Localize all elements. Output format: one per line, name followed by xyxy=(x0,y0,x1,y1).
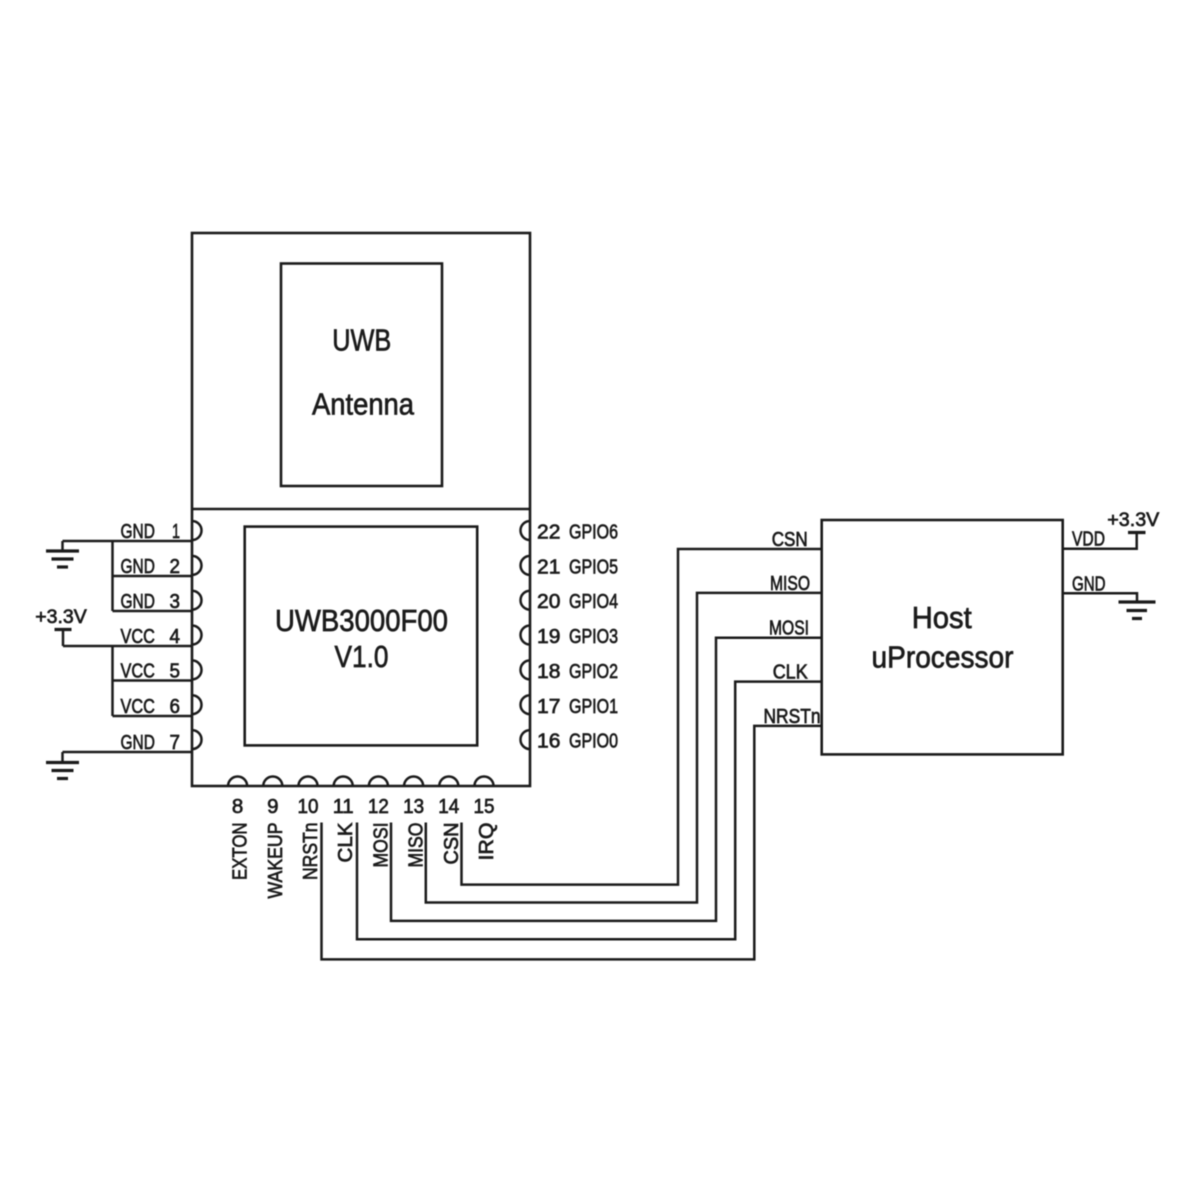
svg-text:+3.3V: +3.3V xyxy=(1107,509,1159,531)
chip body UWB3000F00 xyxy=(245,527,478,746)
wire VDD stub xyxy=(1063,533,1137,549)
pin 20 bump xyxy=(521,591,531,610)
wire net MOSI module-to-host xyxy=(391,638,822,921)
pin 21 bump xyxy=(521,556,531,575)
pin 1 bump xyxy=(192,521,202,540)
pin 3 bump xyxy=(192,591,202,610)
svg-text:CLK: CLK xyxy=(773,662,809,684)
power +3.3V symbol left xyxy=(55,628,72,631)
svg-text:13: 13 xyxy=(403,795,424,818)
svg-text:15: 15 xyxy=(474,795,495,818)
svg-text:GPIO1: GPIO1 xyxy=(569,696,618,718)
svg-text:20: 20 xyxy=(537,591,560,613)
svg-text:NRSTn: NRSTn xyxy=(300,823,322,881)
svg-text:16: 16 xyxy=(537,731,560,753)
svg-text:GND: GND xyxy=(1072,573,1106,595)
power +3.3V symbol right xyxy=(1128,531,1146,534)
svg-text:VDD: VDD xyxy=(1072,529,1105,551)
svg-text:CSN: CSN xyxy=(441,823,463,865)
svg-text:CLK: CLK xyxy=(335,822,357,863)
pin 15 bump xyxy=(475,777,494,787)
svg-text:9: 9 xyxy=(267,795,278,818)
pin 2 bump xyxy=(192,556,202,575)
wire pin3 GND stub xyxy=(113,610,193,613)
svg-text:GPIO4: GPIO4 xyxy=(569,591,618,613)
wire pin7 GND stub xyxy=(63,751,193,754)
pin 14 bump xyxy=(439,777,458,787)
svg-text:8: 8 xyxy=(232,795,243,818)
module internal divider xyxy=(192,508,530,511)
svg-text:19: 19 xyxy=(537,626,560,648)
ground symbol at pin7 xyxy=(61,752,64,763)
svg-text:GPIO2: GPIO2 xyxy=(569,661,618,683)
svg-text:WAKEUP: WAKEUP xyxy=(265,823,287,899)
svg-text:uProcessor: uProcessor xyxy=(872,640,1014,675)
svg-text:11: 11 xyxy=(333,795,354,818)
host uProcessor box U2 xyxy=(822,520,1063,754)
svg-text:22: 22 xyxy=(537,522,560,544)
svg-text:GPIO3: GPIO3 xyxy=(569,626,618,648)
wire GND stub xyxy=(1063,593,1137,602)
svg-text:MOSI: MOSI xyxy=(769,618,809,640)
svg-text:14: 14 xyxy=(438,795,459,818)
wire pin6 VCC stub xyxy=(113,715,193,718)
svg-text:CSN: CSN xyxy=(772,529,808,551)
wire net MISO module-to-host xyxy=(426,593,822,903)
wire pin5 VCC stub xyxy=(113,679,193,682)
svg-text:UWB3000F00: UWB3000F00 xyxy=(275,603,448,638)
svg-text:17: 17 xyxy=(537,696,560,718)
pin 16 bump xyxy=(521,730,531,749)
UWB module U1 outline xyxy=(192,233,530,786)
svg-text:IRQ: IRQ xyxy=(476,823,498,861)
pin 12 bump xyxy=(369,777,388,787)
pin 6 bump xyxy=(192,695,202,714)
svg-text:Antenna: Antenna xyxy=(312,387,415,422)
wire net CSN module-to-host xyxy=(462,549,823,885)
UWB antenna box xyxy=(281,264,442,487)
svg-text:MISO: MISO xyxy=(770,573,810,595)
wire pin4 VCC stub xyxy=(63,645,192,648)
pin 8 bump xyxy=(228,777,247,787)
svg-text:+3.3V: +3.3V xyxy=(35,606,87,628)
svg-text:21: 21 xyxy=(537,556,560,578)
pin 5 bump xyxy=(192,660,202,679)
svg-text:NRSTn: NRSTn xyxy=(764,706,821,728)
pin 19 bump xyxy=(521,626,531,645)
svg-text:GPIO6: GPIO6 xyxy=(569,522,618,544)
svg-text:UWB: UWB xyxy=(332,323,391,358)
svg-text:10: 10 xyxy=(298,795,319,818)
svg-text:GPIO0: GPIO0 xyxy=(569,731,618,753)
wire net CLK module-to-host xyxy=(357,682,822,940)
pin 4 bump xyxy=(192,626,202,645)
wire pin1 GND stub xyxy=(63,540,193,543)
ground symbol at pin1 xyxy=(61,541,64,551)
pin 13 bump xyxy=(404,777,423,787)
pin 9 bump xyxy=(263,777,282,787)
pin 10 bump xyxy=(299,777,318,786)
wire net NRSTn module-to-host xyxy=(322,726,823,960)
wire pin2 GND stub xyxy=(113,575,193,578)
pin 7 bump xyxy=(192,730,202,749)
wire GND1-3 bus vertical xyxy=(111,541,114,611)
pin 22 bump xyxy=(521,521,531,540)
ground symbol at host GND xyxy=(1119,600,1156,603)
svg-text:MOSI: MOSI xyxy=(370,823,392,868)
svg-text:EXTON: EXTON xyxy=(230,823,252,881)
wire VCC4-6 bus vertical xyxy=(111,646,114,716)
svg-text:V1.0: V1.0 xyxy=(335,639,389,674)
pin 17 bump xyxy=(521,695,531,714)
svg-text:12: 12 xyxy=(368,795,389,818)
pin 18 bump xyxy=(521,660,531,679)
svg-text:18: 18 xyxy=(537,661,560,683)
pin 11 bump xyxy=(334,777,353,787)
svg-text:GPIO5: GPIO5 xyxy=(569,556,618,578)
svg-text:Host: Host xyxy=(912,600,972,635)
svg-text:MISO: MISO xyxy=(406,823,428,868)
